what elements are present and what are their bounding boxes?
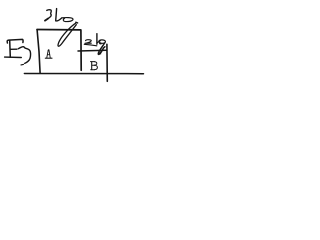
block B (top edge) [78,49,107,52]
letter A crossbar [48,54,50,56]
letter B stem [91,62,93,70]
2kg underline [84,44,97,46]
letter A apex [48,49,49,52]
letter B upper bowl [94,62,96,65]
3kg pointer loop into block A [58,23,76,46]
force label F (stem) [9,40,12,57]
label 3 (of 3kg) [45,10,51,21]
label 3 bottom wedge [45,19,48,21]
block B (right edge) [106,44,108,81]
ground line [24,73,143,75]
block A (right edge) [80,30,82,70]
label k of 2kg (foot tick) [97,41,101,43]
label k of 2kg (stem) [96,34,98,45]
force F arrow end dash [21,63,23,66]
letter B top bar [91,61,95,63]
letter A legs [47,50,50,57]
label g of 2kg (head loop) [99,40,105,43]
label k of 2kg (foot dash) [100,43,101,45]
letter B bottom bar [91,69,95,71]
label 2 (of 2kg) [85,40,91,44]
letter B lower bowl [94,65,97,69]
2kg pointer arrowhead blob [98,51,102,55]
label k of 3kg (stem) [55,9,58,21]
label g of 3kg (tail connector dot) [76,21,78,24]
letter B middle bar [92,64,94,66]
label g of 3kg (head loop) [62,18,73,22]
label k of 3kg (foot tick) [56,18,62,21]
letter A serif feet [45,57,52,59]
force label F (top bar) [7,39,23,43]
force F arrow (curved arm and hook) [10,47,30,64]
block A (left edge) [37,30,40,73]
block A (top edge) [37,29,81,31]
F baseline [5,56,22,58]
2kg pointer loop into block B [98,43,105,54]
